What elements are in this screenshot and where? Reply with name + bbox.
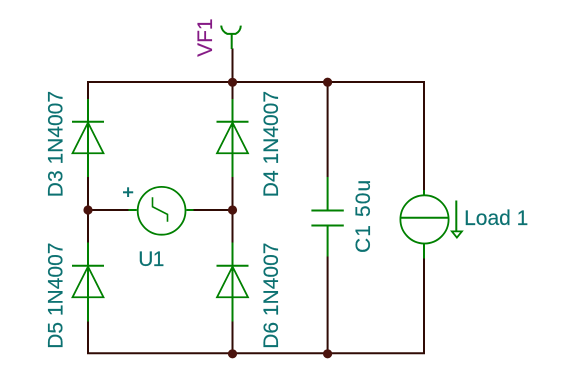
svg-text:D4 1N4007: D4 1N4007	[260, 91, 283, 197]
svg-text:Load 1: Load 1	[464, 207, 528, 230]
svg-text:U1: U1	[138, 248, 164, 271]
svg-text:D3 1N4007: D3 1N4007	[44, 91, 67, 197]
svg-text:VF1: VF1	[194, 18, 217, 57]
svg-text:C1 50u: C1 50u	[352, 179, 375, 253]
svg-text:D6 1N4007: D6 1N4007	[260, 243, 283, 349]
svg-text:D5 1N4007: D5 1N4007	[44, 243, 67, 349]
